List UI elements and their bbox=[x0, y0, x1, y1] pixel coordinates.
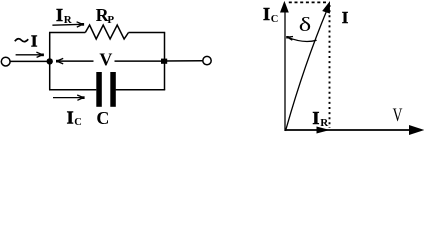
arrow V tip dot bbox=[56, 60, 59, 63]
wire: node B to right terminal bbox=[164, 60, 203, 62]
wire: middle rail right of V label bbox=[115, 60, 165, 62]
terminal left (AC input) bbox=[1, 57, 10, 66]
wire: left terminal to node A bbox=[10, 60, 50, 62]
phasor: V axis arrowhead bbox=[409, 125, 424, 135]
wire: right branch vertical bbox=[164, 33, 166, 90]
arrow delta (curved, pointing to IC axis) bbox=[287, 37, 316, 42]
svg-text:δ: δ bbox=[299, 14, 311, 36]
svg-text:P: P bbox=[107, 14, 114, 26]
wire: middle rail left of V label bbox=[57, 60, 94, 62]
svg-text:I: I bbox=[312, 108, 319, 128]
phasor: I vector arrowhead bbox=[322, 1, 330, 14]
svg-text:V: V bbox=[393, 105, 403, 126]
dotted line: vertical from I tip down to axis bbox=[329, 5, 331, 128]
resistor RP (zigzag) bbox=[85, 25, 128, 39]
wire: top rail right segment bbox=[129, 32, 166, 34]
wire: bottom rail right segment bbox=[116, 89, 166, 91]
arrow IR tip dot bbox=[81, 23, 84, 26]
phasor: I vector shaft bbox=[286, 10, 328, 132]
wire: bottom rail left segment bbox=[49, 89, 96, 91]
arrow I tip dot bbox=[41, 54, 44, 57]
label delta (angle) bbox=[299, 14, 311, 36]
svg-text:I: I bbox=[67, 108, 74, 128]
node A (left junction dot) bbox=[47, 58, 53, 64]
svg-text:C: C bbox=[271, 14, 279, 25]
node B (right junction dot) bbox=[161, 59, 167, 64]
arrow IC tip dot bbox=[82, 96, 85, 99]
arrow IR (above resistor, pointing right) bbox=[52, 22, 82, 27]
dotted line: horizontal from IC tip to I tip bbox=[289, 1, 326, 3]
arrow delta tip dot bbox=[286, 36, 289, 39]
arrow V (middle-wire arrowhead pointing left at node A) bbox=[57, 58, 63, 64]
svg-text:C: C bbox=[74, 117, 82, 128]
phasor: V axis bbox=[285, 129, 412, 131]
svg-text:I: I bbox=[342, 8, 349, 27]
capacitor C plate right bbox=[110, 72, 116, 107]
svg-text:I: I bbox=[56, 5, 63, 25]
phasor: IR arrowhead on axis bbox=[317, 127, 330, 134]
svg-text:C: C bbox=[96, 108, 109, 128]
tilde of AC source label bbox=[15, 39, 28, 42]
svg-text:R: R bbox=[320, 117, 329, 129]
wire: top rail left segment bbox=[49, 32, 85, 34]
svg-text:I: I bbox=[263, 4, 270, 24]
wire: left branch vertical (node A up to top rail, down to bottom rail) bbox=[49, 33, 51, 90]
arrow I (under ~I label, pointing right) bbox=[16, 52, 43, 57]
svg-text:I: I bbox=[31, 32, 38, 51]
capacitor C plate left bbox=[96, 72, 102, 107]
phasor: IC vector arrowhead bbox=[280, 1, 289, 13]
phasor: IC vector shaft bbox=[284, 11, 286, 131]
terminal right bbox=[203, 56, 211, 64]
arrow IC (above IC label, pointing right) bbox=[53, 95, 83, 100]
svg-text:V: V bbox=[99, 50, 112, 70]
